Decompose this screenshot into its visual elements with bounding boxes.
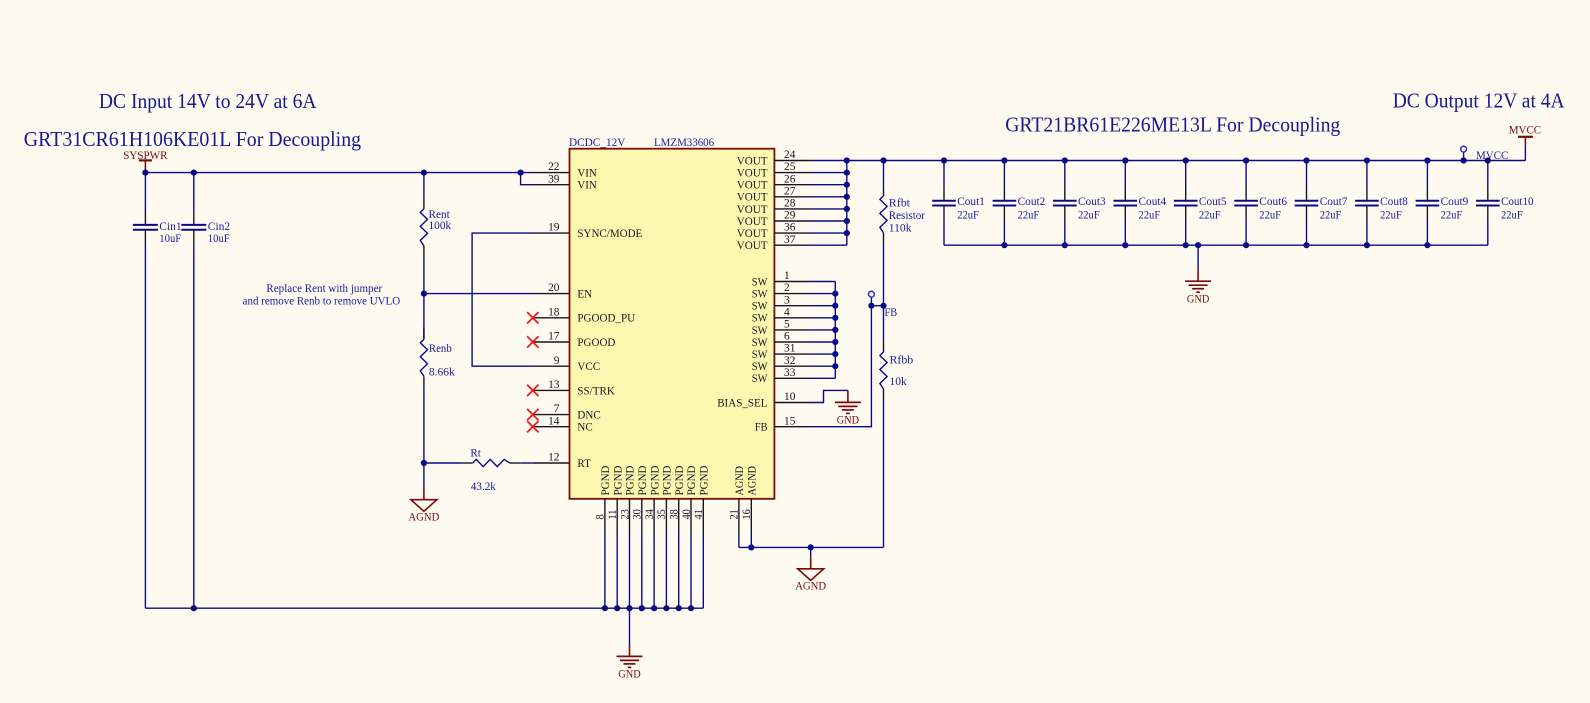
junction dots on output rail	[941, 157, 1491, 163]
pin 23 PGND (bottom)	[619, 465, 636, 535]
wire: AGND pin 21 down	[738, 535, 740, 547]
pin 15 FB (right)	[755, 415, 811, 433]
svg-text:22uF: 22uF	[1199, 207, 1221, 221]
capacitor Cout8 22uF	[1355, 161, 1408, 246]
svg-text:100k: 100k	[429, 218, 452, 232]
pin 12 RT (left)	[533, 452, 591, 470]
resistor Rt 43.2k	[424, 445, 534, 492]
pin 27 VOUT (right)	[737, 185, 811, 203]
ground GND (output)	[1185, 245, 1211, 305]
pin 4 SW (right)	[752, 306, 811, 324]
label: LMZM33606	[654, 135, 714, 149]
note: replace Rent note line1	[266, 281, 382, 295]
svg-text:22uF: 22uF	[1320, 207, 1342, 221]
svg-text:VIN: VIN	[577, 178, 597, 192]
no-connect X on pin 18	[527, 312, 538, 323]
svg-text:1: 1	[784, 270, 790, 282]
svg-text:25: 25	[784, 161, 796, 173]
no-connect X on pin 7	[527, 409, 538, 420]
svg-text:22: 22	[548, 161, 560, 173]
title: DC Input 14V to 24V at 6A	[99, 89, 317, 113]
svg-text:37: 37	[784, 234, 796, 246]
wire: SW bus	[811, 282, 836, 379]
svg-text:27: 27	[784, 185, 796, 197]
svg-text:PGOOD_PU: PGOOD_PU	[577, 311, 635, 325]
svg-text:SW: SW	[752, 371, 768, 385]
svg-text:110k: 110k	[889, 221, 912, 235]
wire: AGND rail	[739, 546, 884, 548]
pin 29 VOUT (right)	[737, 210, 811, 228]
pin 40 PGND (bottom)	[681, 465, 698, 535]
svg-text:12: 12	[548, 452, 560, 464]
pin 28 VOUT (right)	[737, 198, 811, 216]
svg-text:Rt: Rt	[470, 445, 481, 459]
svg-text:Renb: Renb	[429, 341, 452, 355]
svg-text:40: 40	[681, 509, 693, 520]
svg-text:10k: 10k	[890, 374, 907, 388]
pin 10 BIAS_SEL (right)	[717, 391, 810, 409]
wire: main ground rail	[145, 607, 703, 609]
svg-text:24: 24	[784, 149, 796, 161]
svg-text:Cout7: Cout7	[1320, 194, 1348, 208]
capacitor Cin2 10uF	[181, 173, 230, 246]
pin 34 PGND (bottom)	[644, 465, 661, 535]
wire: PGND pin 8 to ground rail	[604, 535, 606, 608]
svg-text:Cout8: Cout8	[1380, 194, 1408, 208]
wire: FB pin 15 to FB node	[811, 306, 872, 427]
svg-text:9: 9	[554, 355, 560, 367]
svg-text:13: 13	[548, 379, 560, 391]
svg-text:AGND: AGND	[408, 509, 439, 523]
wire: VOUT bus	[811, 161, 847, 246]
svg-text:5: 5	[784, 319, 790, 331]
svg-text:Rfbb: Rfbb	[890, 353, 914, 367]
pin 6 SW (right)	[752, 331, 811, 349]
svg-text:14: 14	[548, 415, 560, 427]
svg-text:22uF: 22uF	[1139, 207, 1161, 221]
svg-text:16: 16	[741, 509, 753, 520]
pin 33 SW (right)	[752, 367, 811, 385]
ground GND (BIAS_SEL)	[835, 390, 861, 426]
pin 1 SW (right)	[752, 270, 811, 288]
svg-text:Cout4: Cout4	[1139, 194, 1167, 208]
svg-text:41: 41	[693, 509, 705, 520]
junction dot Rfbt top	[880, 157, 886, 163]
pin 26 VOUT (right)	[737, 173, 811, 191]
svg-text:Cout3: Cout3	[1078, 194, 1106, 208]
ground GND (bottom)	[617, 608, 643, 680]
svg-text:43.2k: 43.2k	[471, 479, 496, 493]
svg-text:VCC: VCC	[577, 359, 600, 373]
pin 30 PGND (bottom)	[632, 465, 649, 535]
svg-text:MVCC: MVCC	[1509, 123, 1541, 137]
pin 25 VOUT (right)	[737, 161, 811, 179]
junction dots on VIN rail	[142, 170, 523, 176]
pin 22 VIN (left)	[533, 161, 597, 179]
svg-text:GND: GND	[1187, 291, 1210, 305]
wire: VIN top rail	[145, 172, 533, 174]
svg-text:Cout9: Cout9	[1441, 194, 1469, 208]
pin 14 NC (left)	[533, 415, 592, 433]
pin 32 SW (right)	[752, 355, 811, 373]
svg-text:28: 28	[784, 198, 796, 210]
pin 37 VOUT (right)	[737, 234, 811, 252]
pin 19 SYNC/MODE (left)	[533, 222, 642, 240]
capacitor Cin1 10uF	[133, 173, 182, 246]
wire: output cap ground rail	[944, 244, 1488, 246]
wire: Rfbb down to AGND rail	[883, 401, 885, 547]
svg-text:22uF: 22uF	[1078, 207, 1100, 221]
svg-text:31: 31	[784, 343, 796, 355]
wire: Cin2 down to ground rail	[193, 244, 195, 609]
node FB (test point)	[868, 291, 897, 319]
svg-text:7: 7	[554, 403, 560, 415]
resistor Rfbb 10k	[880, 306, 913, 401]
capacitor Cout3 22uF	[1053, 161, 1106, 246]
power flag SYSPWR	[123, 148, 167, 172]
node MVCC (test point)	[1461, 146, 1509, 162]
svg-text:22uF: 22uF	[1441, 207, 1463, 221]
svg-text:Cout6: Cout6	[1259, 194, 1287, 208]
pin 11 PGND (bottom)	[607, 465, 624, 535]
svg-text:22uF: 22uF	[1018, 207, 1040, 221]
wire: Rent to EN node	[423, 256, 425, 294]
wire: RT node down to AGND	[423, 463, 425, 488]
capacitor Cout7 22uF	[1295, 161, 1348, 246]
svg-text:2: 2	[784, 282, 790, 294]
capacitor Cout2 22uF	[993, 161, 1046, 246]
title: DC Output 12V at 4A	[1393, 89, 1566, 113]
svg-text:15: 15	[784, 415, 796, 427]
pin 31 SW (right)	[752, 343, 811, 361]
pin 5 SW (right)	[752, 319, 811, 337]
svg-text:10: 10	[784, 391, 796, 403]
svg-text:MVCC: MVCC	[1476, 148, 1508, 162]
pin 9 VCC (left)	[533, 355, 600, 373]
pin 17 PGOOD (left)	[533, 331, 615, 349]
svg-text:and remove Renb to remove UVLO: and remove Renb to remove UVLO	[243, 293, 401, 307]
pin 41 PGND (bottom)	[693, 465, 710, 535]
pin 3 SW (right)	[752, 294, 811, 312]
junction dots on VOUT bus	[844, 170, 850, 237]
svg-text:32: 32	[784, 355, 796, 367]
svg-text:Cout1: Cout1	[957, 194, 985, 208]
svg-text:11: 11	[607, 509, 619, 519]
svg-text:20: 20	[548, 282, 560, 294]
svg-text:38: 38	[669, 509, 681, 520]
pin 38 PGND (bottom)	[669, 465, 686, 535]
svg-text:18: 18	[548, 306, 560, 318]
svg-text:3: 3	[784, 294, 790, 306]
svg-text:AGND: AGND	[745, 466, 759, 496]
wire: PGND pin 30 to ground rail	[641, 535, 643, 608]
svg-text:EN: EN	[577, 287, 592, 301]
node: RT junction	[421, 460, 427, 466]
wire: Renb down to RT node	[423, 387, 425, 463]
svg-text:19: 19	[548, 222, 560, 234]
svg-text:30: 30	[632, 509, 644, 520]
svg-text:Cout5: Cout5	[1199, 194, 1227, 208]
ground AGND (left)	[408, 488, 439, 523]
wire: EN wire to pin 20	[424, 293, 534, 295]
node: EN junction	[421, 291, 427, 297]
note: replace Rent note line2	[243, 293, 401, 307]
no-connect X on pin 13	[527, 385, 538, 396]
svg-text:PGND: PGND	[697, 465, 711, 495]
pin 8 PGND (bottom)	[595, 465, 612, 535]
svg-text:LMZM33606: LMZM33606	[654, 135, 714, 149]
svg-text:35: 35	[656, 509, 668, 520]
svg-text:26: 26	[784, 173, 796, 185]
svg-text:4: 4	[784, 306, 790, 318]
power flag MVCC	[1509, 123, 1541, 161]
wire: AGND pin 16 down	[750, 535, 752, 547]
svg-text:22uF: 22uF	[1380, 207, 1402, 221]
svg-text:SYNC/MODE: SYNC/MODE	[577, 226, 642, 240]
junction dots on cap ground rail	[1001, 242, 1430, 248]
wire: Cin1 down to ground rail	[144, 244, 146, 609]
svg-text:8: 8	[595, 514, 607, 519]
pin 2 SW (right)	[752, 282, 811, 300]
svg-text:NC: NC	[577, 420, 592, 434]
title: GRT21BR61E226ME13L For Decoupling	[1005, 113, 1341, 137]
pin 20 EN (left)	[533, 282, 592, 300]
pin 24 VOUT (right)	[737, 149, 811, 167]
title: GRT31CR61H106KE01L For Decoupling	[24, 127, 362, 151]
pin 13 SS/TRK (left)	[533, 379, 615, 397]
wire: branch to VIN pin39	[521, 173, 534, 185]
IC U1 LMZM33606 body	[570, 149, 775, 499]
svg-text:GND: GND	[837, 413, 860, 427]
ground AGND (right)	[795, 547, 826, 592]
capacitor Cout9 22uF	[1416, 161, 1469, 246]
pin 16 AGND (bottom)	[741, 466, 758, 535]
svg-text:AGND: AGND	[795, 579, 826, 593]
no-connect X on pin 17	[527, 336, 538, 347]
svg-text:FB: FB	[885, 305, 898, 319]
svg-text:22uF: 22uF	[957, 207, 979, 221]
wire: BIAS_SEL to GND	[811, 390, 848, 402]
svg-text:10uF: 10uF	[208, 231, 230, 245]
capacitor Cout10 22uF	[1476, 161, 1534, 246]
svg-text:10uF: 10uF	[159, 231, 181, 245]
resistor Renb 8.66k	[420, 327, 454, 387]
svg-text:34: 34	[644, 509, 656, 520]
label: DCDC_12V	[569, 135, 626, 149]
svg-text:22uF: 22uF	[1259, 207, 1281, 221]
svg-text:23: 23	[619, 509, 631, 520]
pin 21 AGND (bottom)	[729, 466, 746, 535]
capacitor Cout1 22uF	[932, 161, 985, 246]
pin 35 PGND (bottom)	[656, 465, 673, 535]
svg-text:GND: GND	[618, 667, 641, 681]
wire: PGND pin 11 to ground rail	[616, 535, 618, 608]
wire: PGND pin 35 to ground rail	[665, 535, 667, 608]
wire: PGND pin 40 to ground rail	[690, 535, 692, 608]
svg-text:RT: RT	[577, 456, 591, 470]
no-connect X on pin 14	[527, 421, 538, 432]
pin 18 PGOOD_PU (left)	[533, 306, 635, 324]
capacitor Cout6 22uF	[1234, 161, 1287, 246]
capacitor Cout4 22uF	[1114, 161, 1167, 246]
svg-text:8.66k: 8.66k	[429, 365, 455, 379]
svg-text:33: 33	[784, 367, 796, 379]
svg-text:22uF: 22uF	[1501, 207, 1523, 221]
svg-text:GRT21BR61E226ME13L For Decoupl: GRT21BR61E226ME13L For Decoupling	[1005, 113, 1341, 137]
svg-text:VOUT: VOUT	[737, 238, 768, 252]
wire: PGND pin 38 to ground rail	[678, 535, 680, 608]
svg-text:17: 17	[548, 331, 560, 343]
svg-text:6: 6	[784, 331, 790, 343]
capacitor Cout5 22uF	[1174, 161, 1227, 246]
svg-text:PGOOD: PGOOD	[577, 335, 615, 349]
svg-text:21: 21	[729, 509, 741, 520]
svg-text:BIAS_SEL: BIAS_SEL	[717, 395, 767, 409]
wire: VOUT output rail	[847, 160, 1526, 162]
pin 36 VOUT (right)	[737, 222, 811, 240]
wire: PGND pin 41 to ground rail	[702, 535, 704, 608]
svg-text:FB: FB	[755, 420, 768, 434]
junction dots on AGND rail	[748, 544, 814, 550]
junction dots on SW bus	[832, 291, 838, 370]
junction dots on ground rail	[191, 605, 694, 611]
svg-text:SS/TRK: SS/TRK	[577, 383, 615, 397]
resistor Rent 100k	[420, 173, 451, 256]
svg-text:Cout10: Cout10	[1501, 194, 1534, 208]
svg-text:29: 29	[784, 210, 796, 222]
wire: EN node down to Renb	[423, 294, 425, 340]
wire: PGND pin 34 to ground rail	[653, 535, 655, 608]
wire: PGND pin 23 to ground rail	[629, 535, 631, 608]
svg-text:DC Output 12V at 4A: DC Output 12V at 4A	[1393, 89, 1566, 113]
wire: Rfbt to FB node	[883, 244, 885, 306]
svg-text:Cout2: Cout2	[1018, 194, 1046, 208]
svg-text:36: 36	[784, 222, 796, 234]
wire: SYNC/MODE to VCC link	[472, 233, 533, 366]
junction dot VOUT bus to rail	[844, 157, 850, 163]
pin 39 VIN (left)	[533, 173, 597, 191]
svg-text:DCDC_12V: DCDC_12V	[569, 135, 626, 149]
pin 7 DNC (left)	[533, 403, 600, 421]
svg-text:DC Input 14V to 24V at 6A: DC Input 14V to 24V at 6A	[99, 89, 317, 113]
svg-text:39: 39	[548, 173, 560, 185]
svg-text:GRT31CR61H106KE01L For Decoupl: GRT31CR61H106KE01L For Decoupling	[24, 127, 362, 151]
resistor Rfbt 110k	[880, 161, 925, 244]
